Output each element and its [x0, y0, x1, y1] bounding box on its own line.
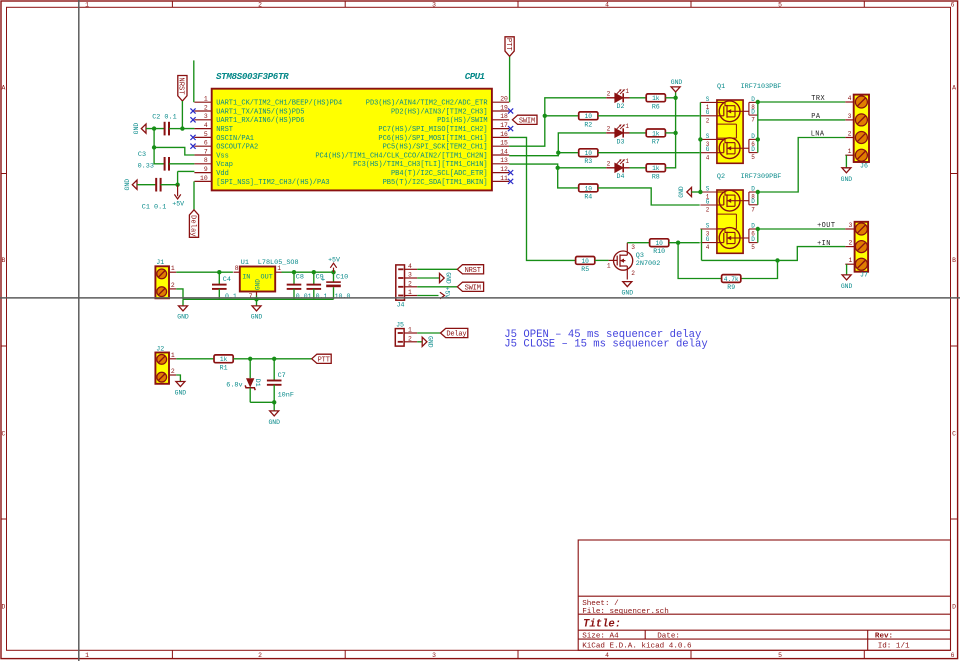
svg-text:GND: GND: [841, 283, 853, 290]
svg-text:Size: A4: Size: A4: [582, 633, 619, 641]
svg-text:GND: GND: [678, 186, 685, 198]
svg-text:D4: D4: [617, 173, 625, 180]
wire pin1 stub up: [193, 60, 195, 102]
svg-text:19: 19: [500, 104, 508, 111]
wire ground rail: [183, 298, 334, 300]
wire U1 OUT rail: [282, 271, 334, 273]
resistor R9: [722, 275, 741, 291]
junction R2 tap: [543, 114, 547, 118]
capacitor C7: [267, 381, 282, 385]
svg-text:6: 6: [951, 652, 955, 659]
global label NRST J4: [457, 265, 483, 274]
svg-text:2: 2: [631, 270, 635, 277]
pin 12 PB4(T)/I2C_SCL[ADC_ETR]: [492, 172, 509, 174]
svg-text:UART1_CK/TIM2_CH1/BEEP/(HS)PD4: UART1_CK/TIM2_CH1/BEEP/(HS)PD4: [216, 100, 342, 108]
svg-text:10nF: 10nF: [278, 391, 294, 399]
power +5V at C1: [174, 185, 180, 199]
wire Vdd pin9: [178, 170, 195, 172]
junction C4: [217, 270, 221, 274]
resistor R3: [579, 149, 598, 165]
svg-text:2: 2: [171, 368, 175, 375]
svg-text:NRST: NRST: [216, 126, 233, 134]
LED D4: [606, 158, 629, 180]
connector J6: [845, 95, 869, 170]
pin 4 NRST: [194, 128, 211, 130]
svg-text:J4: J4: [397, 302, 405, 309]
svg-text:PC4(HS)/TIM1_CH4/CLK_CCO/AIN2/: PC4(HS)/TIM1_CH4/CLK_CCO/AIN2/[TIM1_CH2N…: [315, 152, 487, 160]
svg-text:2: 2: [171, 282, 175, 289]
wire J5 pin1: [417, 332, 440, 334]
svg-text:10: 10: [581, 258, 589, 265]
capacitor C2: [165, 122, 169, 136]
svg-text:G: G: [706, 236, 710, 243]
connector J5: [395, 321, 417, 346]
svg-text:2: 2: [706, 207, 710, 214]
transistor Q3 2N7002: [607, 243, 660, 280]
svg-text:4: 4: [848, 95, 852, 102]
resistor R7: [646, 129, 665, 145]
wire J4 pin3: [417, 277, 440, 279]
resistor R10: [650, 239, 669, 255]
wire C4 bottom: [218, 289, 220, 300]
svg-text:PC3(HS)/TIM1_CH3[TLI][TIM1_CH1: PC3(HS)/TIM1_CH3[TLI][TIM1_CH1N]: [353, 161, 487, 169]
pin 14 PC4(HS)/TIM1_CH4/CLK_CCO/AIN2/[TIM1_CH2N]: [492, 154, 509, 156]
svg-text:Vdd: Vdd: [216, 170, 229, 178]
global label NRST: [178, 76, 187, 102]
svg-text:A: A: [952, 85, 956, 92]
ground GND J5: [422, 337, 427, 346]
svg-text:J6: J6: [860, 163, 868, 170]
wire R1 to PTT: [233, 358, 311, 360]
connector J1: [155, 259, 176, 298]
svg-text:GND: GND: [175, 390, 187, 397]
wire C9 top: [313, 272, 315, 285]
svg-text:IN: IN: [242, 274, 250, 282]
wire R2 to Q1 G2: [598, 115, 700, 117]
svg-text:Vss: Vss: [216, 152, 229, 160]
svg-text:R7: R7: [652, 138, 660, 145]
wire J4 pin4: [417, 268, 457, 270]
svg-text:2: 2: [258, 652, 262, 659]
svg-text:D: D: [751, 222, 755, 229]
wire NRST to pin4: [182, 101, 194, 129]
wire pin14 to D3: [509, 133, 606, 156]
wire PA net: [758, 119, 846, 121]
svg-text:OSCIN/PA1: OSCIN/PA1: [216, 135, 254, 143]
wire R6 to gnd rail: [665, 97, 675, 99]
svg-text:J7: J7: [860, 271, 868, 278]
wire pin20 to PTT: [509, 56, 511, 102]
wire Q2 drain tie a: [757, 192, 759, 205]
wire GND to Q2 S1: [692, 191, 701, 193]
svg-text:R1: R1: [220, 364, 228, 371]
svg-text:C7: C7: [278, 372, 286, 380]
wire R3 to Q1 G4: [598, 152, 700, 154]
svg-text:Vcap: Vcap: [216, 161, 233, 169]
svg-text:2: 2: [607, 161, 611, 168]
wire J1 pin2 down: [176, 289, 183, 299]
svg-text:R2: R2: [584, 121, 592, 128]
svg-text:Date:: Date:: [657, 633, 680, 641]
svg-text:3: 3: [849, 222, 853, 229]
wire to C3: [154, 147, 165, 163]
svg-text:S: S: [706, 133, 710, 140]
wire down from C2 node: [153, 129, 155, 148]
svg-text:D: D: [751, 96, 755, 103]
svg-text:4: 4: [706, 154, 710, 161]
svg-text:Delay: Delay: [188, 215, 196, 237]
svg-text:2: 2: [408, 335, 412, 342]
svg-text:+IN: +IN: [817, 240, 831, 248]
ground GND LED rail: [671, 87, 680, 92]
global label SWIM J4: [457, 282, 483, 291]
connector J4: [396, 263, 417, 309]
svg-text:10.0: 10.0: [335, 293, 351, 300]
ground GND J7: [842, 275, 851, 280]
svg-text:15: 15: [500, 140, 508, 147]
svg-text:+5V: +5V: [172, 201, 184, 208]
svg-text:3: 3: [631, 244, 635, 251]
wire D4 to R8: [630, 167, 647, 169]
svg-text:10: 10: [200, 175, 208, 182]
wire J4 pin1: [417, 295, 438, 297]
svg-text:3: 3: [432, 652, 436, 659]
wire pin16 to R5: [509, 137, 576, 260]
wire up to Q2 S3: [701, 229, 703, 260]
svg-text:2: 2: [607, 126, 611, 133]
svg-text:R10: R10: [653, 248, 665, 255]
svg-text:4: 4: [706, 244, 710, 251]
resistor R6: [646, 94, 665, 110]
wire J1 to U1 IN: [176, 271, 233, 273]
ground GND J4: [440, 273, 445, 282]
no-connect pin 19: [508, 108, 513, 113]
pin 9 Vdd: [194, 172, 211, 174]
wire gnd stub U1: [256, 299, 258, 306]
svg-text:5: 5: [778, 652, 782, 659]
capacitor C1: [156, 178, 160, 192]
svg-text:GND: GND: [133, 123, 140, 135]
wire gnd stub: [182, 299, 184, 306]
junction C: [152, 145, 156, 149]
svg-text:1: 1: [277, 265, 281, 272]
svg-text:7: 7: [249, 293, 253, 300]
svg-text:+: +: [321, 276, 326, 284]
svg-text:GND: GND: [622, 290, 634, 297]
svg-text:NRST: NRST: [177, 77, 185, 95]
svg-text:10: 10: [585, 185, 593, 192]
transistor unit Q1a: [700, 101, 757, 122]
svg-text:3: 3: [408, 272, 412, 279]
svg-text:PD1(HS)/SWIM: PD1(HS)/SWIM: [437, 117, 487, 125]
wire J2 pin2 gnd: [176, 375, 180, 382]
capacitor C7: [273, 359, 275, 381]
svg-text:S: S: [706, 222, 710, 229]
svg-text:D2: D2: [617, 103, 625, 110]
title block: [578, 540, 950, 650]
svg-text:GND: GND: [841, 176, 853, 183]
transistor unit Q2a: [700, 190, 757, 211]
wire TRX net: [758, 101, 846, 103]
junction R7 gnd: [673, 131, 677, 135]
wire R5 to Q3 gate: [595, 259, 609, 261]
wire J7 pin1 to gnd: [846, 264, 848, 275]
wire R8 to gnd rail up: [665, 92, 675, 168]
capacitor C8: [287, 285, 302, 289]
svg-text:7: 7: [204, 148, 208, 155]
svg-text:U1: U1: [241, 259, 249, 267]
svg-text:C2 0.1: C2 0.1: [152, 114, 176, 122]
cursor crosshair: [78, 0, 80, 661]
svg-text:13: 13: [500, 157, 508, 164]
svg-text:File: sequencer.sch: File: sequencer.sch: [582, 608, 669, 616]
global label PTT: [505, 37, 514, 57]
pin 5 OSCIN/PA1: [194, 136, 211, 138]
wire D3 to R7: [630, 132, 647, 134]
svg-text:2N7002: 2N7002: [636, 260, 660, 268]
svg-text:D: D: [751, 198, 755, 205]
wire node to D4: [558, 167, 607, 169]
svg-text:S: S: [706, 185, 710, 192]
junction R6 gnd: [673, 96, 677, 100]
svg-text:1: 1: [408, 289, 412, 296]
svg-text:GND: GND: [427, 336, 434, 348]
svg-text:OUT: OUT: [261, 274, 273, 282]
svg-text:B: B: [1, 257, 5, 264]
svg-text:9: 9: [204, 166, 208, 173]
wire J4 pin2: [417, 286, 457, 288]
wire C4 top: [218, 272, 220, 285]
pin 2 UART1_TX/AIN5/(HS)PD5: [194, 110, 211, 112]
svg-text:PC5(HS)/SPI_SCK[TEM2_CH1]: PC5(HS)/SPI_SCK[TEM2_CH1]: [383, 144, 488, 152]
pin 8 Vcap: [194, 163, 211, 165]
svg-text:GND: GND: [671, 79, 683, 86]
svg-text:1: 1: [625, 123, 629, 130]
LED D2: [606, 88, 629, 110]
power +5V at C10: [330, 263, 336, 272]
svg-text:2: 2: [607, 91, 611, 98]
svg-text:1k: 1k: [652, 130, 660, 137]
svg-text:D: D: [751, 185, 755, 192]
svg-text:R9: R9: [727, 284, 735, 291]
svg-text:16: 16: [500, 131, 508, 138]
pin 15 PC5(HS)/SPI_SCK[TEM2_CH1]: [492, 145, 509, 147]
junction TRX tap: [756, 100, 760, 104]
svg-text:5: 5: [778, 1, 782, 8]
svg-text:A: A: [1, 85, 5, 92]
wire to Vss pin7: [154, 147, 194, 155]
svg-text:B: B: [952, 257, 956, 264]
ground GND D1C7: [270, 411, 279, 416]
no-connect pin 5: [190, 135, 195, 140]
pin 18 PD1(HS)/SWIM: [492, 119, 509, 121]
svg-text:8: 8: [235, 265, 239, 272]
svg-text:S: S: [706, 96, 710, 103]
svg-text:KiCad E.D.A. kicad 4.0.6: KiCad E.D.A. kicad 4.0.6: [582, 642, 692, 650]
svg-text:3: 3: [204, 113, 208, 120]
svg-text:7: 7: [751, 206, 755, 213]
wire pin10 to Delay: [193, 181, 195, 209]
wire Q1 source chain to GND: [699, 102, 701, 192]
svg-text:C: C: [1, 431, 5, 438]
wire +IN net: [702, 247, 846, 261]
svg-text:11: 11: [500, 175, 508, 182]
junction C9: [312, 270, 316, 274]
svg-text:4: 4: [408, 263, 412, 270]
pin 13 PC3(HS)/TIM1_CH3[TLI][TIM1_CH1N]: [492, 163, 509, 165]
svg-text:NRST: NRST: [465, 267, 481, 275]
svg-text:PA: PA: [811, 113, 821, 121]
svg-text:IRF7309PBF: IRF7309PBF: [741, 173, 782, 181]
wire C1 to node: [161, 184, 178, 186]
no-connect pin 11: [508, 179, 513, 184]
svg-text:G: G: [706, 109, 710, 116]
pin 1 UART1_CK/TIM2_CH1/BEEP/(HS)PD4: [194, 101, 211, 103]
junction R9 tap: [775, 258, 779, 262]
global label Delay J5: [441, 328, 468, 337]
wire gnd stub: [273, 402, 275, 411]
resistor R4: [579, 184, 598, 200]
svg-text:1: 1: [607, 262, 611, 269]
svg-text:G: G: [706, 198, 710, 205]
wire R4 to Q2 G2: [598, 188, 700, 205]
svg-text:2: 2: [848, 131, 852, 138]
svg-text:STM8S003F3P6TR: STM8S003F3P6TR: [216, 71, 289, 82]
pin 10 [SPI_NSS]_TIM2_CH3/(HS)/PA3: [194, 180, 211, 182]
ground GND C2: [141, 124, 146, 133]
svg-text:C1 0.1: C1 0.1: [142, 204, 166, 212]
svg-text:2: 2: [408, 280, 412, 287]
svg-text:PB5(T)/I2C_SDA[TIM1_BKIN]: PB5(T)/I2C_SDA[TIM1_BKIN]: [383, 179, 488, 187]
svg-text:D: D: [751, 109, 755, 116]
pin 6 OSCOUT/PA2: [194, 145, 211, 147]
wire R10 to Q2 G4: [669, 242, 700, 244]
svg-text:Id: 1/1: Id: 1/1: [878, 642, 910, 650]
svg-text:PD3(HS)/AIN4/TIM2_CH2/ADC_ETR: PD3(HS)/AIN4/TIM2_CH2/ADC_ETR: [366, 100, 489, 108]
wire node to R3: [558, 152, 579, 154]
svg-text:1: 1: [849, 257, 853, 264]
wire Q3 drain to R10: [627, 242, 650, 244]
wire J2 to R1: [176, 358, 214, 360]
svg-text:6: 6: [951, 1, 955, 8]
global label SWIM: [512, 115, 537, 124]
IC CPU1 STM8S003F3P6TR: [194, 71, 509, 191]
svg-text:C4: C4: [223, 276, 231, 284]
junction D6 tap: [756, 137, 760, 141]
svg-text:C8: C8: [296, 274, 304, 282]
wire J5 pin2: [417, 341, 422, 343]
svg-text:1: 1: [85, 652, 89, 659]
capacitor C9: [307, 285, 322, 289]
svg-text:Q1: Q1: [717, 83, 725, 91]
resistor R2: [579, 112, 598, 128]
svg-text:GND: GND: [251, 314, 263, 321]
global label Delay: [189, 210, 198, 238]
wire C2 to node: [169, 128, 182, 130]
svg-text:1: 1: [204, 96, 208, 103]
svg-text:OSCOUT/PA2: OSCOUT/PA2: [216, 144, 258, 152]
svg-text:2: 2: [258, 1, 262, 8]
pin 3 UART1_RX/AIN6/(HS)PD6: [194, 119, 211, 121]
pin 11 PB5(T)/I2C_SDA[TIM1_BKIN]: [492, 180, 509, 182]
svg-text:UART1_RX/AIN6/(HS)PD6: UART1_RX/AIN6/(HS)PD6: [216, 117, 304, 125]
wire node to R2: [545, 115, 579, 117]
svg-text:Title:: Title:: [583, 619, 621, 631]
svg-text:+OUT: +OUT: [817, 222, 835, 230]
wire LNA net: [758, 138, 846, 193]
svg-text:[SPI_NSS]_TIM2_CH3/(HS)/PA3: [SPI_NSS]_TIM2_CH3/(HS)/PA3: [216, 179, 329, 187]
svg-text:2: 2: [849, 240, 853, 247]
wire pin13 to R4: [509, 164, 579, 188]
wire Q2 drain tie b: [757, 229, 759, 243]
svg-text:1: 1: [171, 265, 175, 272]
svg-text:D: D: [1, 604, 5, 611]
svg-text:C3: C3: [138, 151, 146, 159]
svg-text:PTT: PTT: [318, 356, 330, 364]
svg-text:R3: R3: [584, 158, 592, 165]
svg-text:Sheet: /: Sheet: /: [582, 600, 619, 608]
junction S3: [698, 137, 702, 141]
svg-text:1: 1: [625, 158, 629, 165]
voltage regulator U1 L78L05_SO8: [234, 259, 299, 300]
svg-text:5: 5: [751, 244, 755, 251]
svg-text:0.01: 0.01: [296, 293, 312, 300]
svg-text:5: 5: [204, 131, 208, 138]
svg-text:18: 18: [500, 113, 508, 120]
svg-text:0.1: 0.1: [316, 293, 328, 300]
svg-text:14: 14: [500, 148, 508, 155]
svg-text:PD2(HS)/AIN3/[TIM2_CH3]: PD2(HS)/AIN3/[TIM2_CH3]: [391, 108, 488, 116]
wire C8 bottom: [293, 289, 295, 300]
no-connect pin 3: [190, 117, 195, 122]
svg-text:1k: 1k: [220, 356, 228, 363]
svg-text:20: 20: [500, 96, 508, 103]
svg-text:R5: R5: [581, 266, 589, 273]
svg-text:J5 CLOSE – 15 ms sequencer de: J5 CLOSE – 15 ms sequencer delay: [504, 339, 707, 351]
transistor unit Q2b: [700, 228, 757, 249]
svg-text:CPU1: CPU1: [465, 71, 485, 82]
svg-text:10: 10: [655, 240, 663, 247]
capacitor C4: [212, 285, 227, 289]
LED D3: [606, 123, 629, 145]
wire C10 bottom: [333, 287, 335, 299]
svg-text:6.8v: 6.8v: [226, 381, 242, 389]
junction C8: [292, 270, 296, 274]
wire GND to C2: [146, 128, 165, 130]
svg-text:0.33: 0.33: [138, 163, 154, 171]
svg-text:PC7(HS)/SPI_MISO[TIM1_CH2]: PC7(HS)/SPI_MISO[TIM1_CH2]: [378, 126, 487, 134]
wire down to R9: [678, 243, 722, 279]
svg-text:PB4(T)/I2C_SCL[ADC_ETR]: PB4(T)/I2C_SCL[ADC_ETR]: [391, 170, 488, 178]
ground GND J2: [176, 382, 185, 387]
svg-text:+5V: +5V: [443, 287, 450, 299]
junction LNA tap: [756, 190, 760, 194]
svg-text:D: D: [751, 133, 755, 140]
wire U1 gnd: [256, 296, 258, 300]
svg-text:UART1_TX/AIN5/(HS)PD5: UART1_TX/AIN5/(HS)PD5: [216, 108, 304, 116]
junction D: [175, 183, 179, 187]
wire D2 to R6: [630, 97, 647, 99]
ground GND Q2 S1: [687, 187, 692, 196]
svg-text:R6: R6: [652, 103, 660, 110]
svg-text:3: 3: [848, 113, 852, 120]
junction C10: [331, 270, 335, 274]
transistor unit Q1b: [700, 138, 757, 159]
wire Q1 drain tie: [757, 102, 759, 153]
capacitor C3: [165, 157, 169, 171]
svg-text:2: 2: [706, 117, 710, 124]
svg-text:GND: GND: [254, 279, 261, 290]
